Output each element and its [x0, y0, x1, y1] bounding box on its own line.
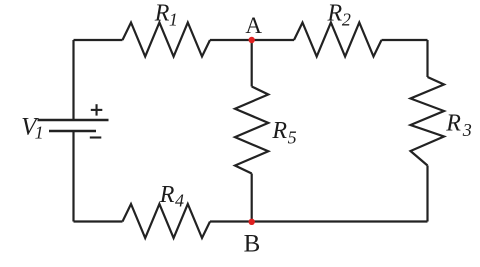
- resistor R2: [294, 23, 382, 57]
- wire: R3 to bottom-right corner: [426, 166, 428, 222]
- battery plus sign: [91, 104, 103, 115]
- svg-text:1: 1: [35, 123, 44, 143]
- svg-text:R: R: [445, 110, 461, 136]
- wire: left vertical, battery bottom plate to bottom-left corner: [72, 131, 74, 222]
- resistor R3: [411, 77, 445, 166]
- svg-text:4: 4: [175, 191, 184, 211]
- wire: bottom-left corner to R4: [74, 220, 123, 222]
- resistor R1: [123, 23, 211, 57]
- wire: R4 through node B to bottom-right corner: [210, 220, 428, 222]
- svg-text:R: R: [159, 182, 175, 208]
- battery V1 negative plate (short): [49, 130, 96, 133]
- node A junction dot: [249, 37, 255, 43]
- battery V1 positive plate (long): [38, 119, 109, 122]
- resistor R5: [235, 87, 268, 174]
- wire: right vertical, top-right corner to R3: [426, 40, 428, 77]
- wire: R1 to node A to R2: [210, 39, 294, 41]
- svg-text:2: 2: [342, 9, 351, 29]
- wire: top-left horizontal, corner to R1: [74, 39, 123, 41]
- svg-text:5: 5: [288, 128, 297, 148]
- svg-text:A: A: [245, 13, 262, 38]
- svg-text:B: B: [244, 231, 261, 258]
- node B junction dot: [249, 219, 255, 225]
- svg-text:R: R: [271, 118, 287, 144]
- wire: left vertical, top-left corner to battery top plate: [72, 40, 74, 120]
- battery minus sign: [90, 136, 102, 138]
- wire: R2 to top-right corner: [382, 39, 428, 41]
- wire: node A down to R5: [251, 40, 253, 87]
- svg-text:1: 1: [169, 9, 178, 29]
- resistor R4: [123, 204, 211, 238]
- wire: R5 down to node B: [251, 174, 253, 222]
- svg-text:R: R: [327, 0, 343, 26]
- svg-text:3: 3: [462, 120, 472, 140]
- svg-text:R: R: [154, 0, 170, 26]
